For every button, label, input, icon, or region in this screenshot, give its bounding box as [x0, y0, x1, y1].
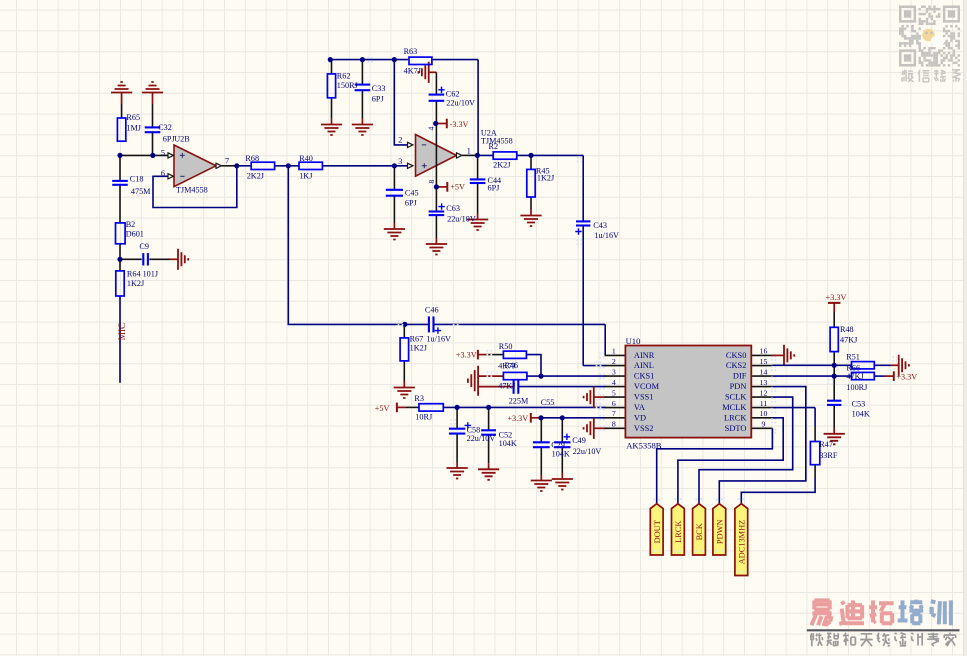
svg-text:TJM4558: TJM4558 — [176, 185, 208, 194]
svg-text:DIF: DIF — [733, 372, 747, 381]
svg-text:LRCK: LRCK — [724, 413, 746, 422]
svg-text:6PJ: 6PJ — [405, 198, 418, 207]
svg-text:-3.3V: -3.3V — [450, 120, 469, 129]
svg-text:104K: 104K — [552, 450, 570, 459]
svg-text:47KJ: 47KJ — [846, 372, 864, 381]
svg-text:22u/10V: 22u/10V — [446, 99, 475, 108]
svg-text:CKS0: CKS0 — [726, 351, 746, 360]
svg-text:R3: R3 — [414, 394, 424, 403]
svg-text:+3.3V: +3.3V — [896, 372, 917, 381]
svg-text:+3.3V: +3.3V — [826, 293, 847, 302]
svg-text:R64 101J: R64 101J — [127, 269, 159, 278]
svg-text:SCLK: SCLK — [725, 393, 746, 402]
svg-text:22u/10V: 22u/10V — [573, 447, 602, 456]
svg-text:4: 4 — [612, 378, 616, 387]
svg-text:C63: C63 — [446, 204, 460, 213]
svg-text:1u/16V: 1u/16V — [594, 231, 619, 240]
svg-text:C52: C52 — [499, 430, 513, 439]
svg-text:R63: R63 — [404, 47, 418, 56]
svg-text:3: 3 — [612, 367, 616, 376]
svg-text:1K2J: 1K2J — [127, 279, 145, 288]
svg-text:C9: C9 — [139, 242, 149, 251]
svg-text:ADC13MHZ: ADC13MHZ — [738, 520, 747, 565]
svg-text:33RF: 33RF — [819, 451, 838, 460]
svg-text:4K7J: 4K7J — [404, 67, 422, 76]
svg-text:LRCK: LRCK — [674, 521, 683, 543]
svg-text:CKS2: CKS2 — [726, 361, 746, 370]
svg-text:10RJ: 10RJ — [415, 413, 433, 422]
svg-text:22u/10V: 22u/10V — [447, 215, 476, 224]
svg-text:R62: R62 — [337, 72, 351, 81]
svg-text:C18: C18 — [130, 175, 144, 184]
svg-text:C29: C29 — [551, 441, 565, 450]
svg-text:1MJ: 1MJ — [126, 123, 141, 132]
svg-text:AK5358B: AK5358B — [626, 440, 662, 450]
svg-text:2K2J: 2K2J — [247, 171, 265, 180]
svg-text:14: 14 — [760, 367, 768, 376]
svg-text:16: 16 — [760, 347, 768, 356]
svg-text:R48: R48 — [840, 325, 854, 334]
svg-text:4: 4 — [427, 127, 436, 131]
svg-text:R51: R51 — [846, 352, 860, 361]
svg-text:C53: C53 — [852, 400, 866, 409]
svg-text:8: 8 — [612, 420, 616, 429]
svg-text:C33: C33 — [372, 84, 386, 93]
svg-text:+5V: +5V — [375, 404, 390, 413]
svg-text:7: 7 — [612, 409, 616, 418]
svg-text:C62: C62 — [446, 90, 460, 99]
svg-text:VSS1: VSS1 — [634, 393, 654, 402]
svg-text:R50: R50 — [499, 342, 513, 351]
svg-text:AINL: AINL — [634, 361, 654, 370]
svg-text:104K: 104K — [852, 410, 870, 419]
svg-text:1KJ: 1KJ — [299, 171, 313, 180]
svg-text:PDN: PDN — [730, 382, 747, 391]
svg-text:PDWN: PDWN — [716, 519, 725, 544]
svg-text:5: 5 — [612, 388, 616, 397]
svg-text:100RJ: 100RJ — [846, 383, 868, 392]
svg-text:22u/10V: 22u/10V — [467, 434, 496, 443]
svg-text:R47: R47 — [819, 440, 833, 449]
svg-text:225M: 225M — [509, 397, 529, 406]
svg-text:9: 9 — [762, 420, 766, 429]
svg-text:R40: R40 — [299, 154, 313, 163]
svg-text:3: 3 — [398, 157, 402, 166]
svg-text:BCK: BCK — [695, 523, 704, 540]
svg-text:C46: C46 — [425, 305, 439, 314]
svg-text:12: 12 — [760, 388, 768, 397]
svg-text:+3.3V: +3.3V — [456, 351, 477, 360]
svg-text:11: 11 — [760, 399, 768, 408]
svg-text:R2: R2 — [489, 142, 499, 151]
svg-text:1: 1 — [467, 146, 471, 155]
svg-text:6: 6 — [612, 399, 616, 408]
svg-text:8: 8 — [427, 180, 436, 184]
svg-text:R65: R65 — [126, 113, 140, 122]
svg-text:C49: C49 — [572, 436, 586, 445]
svg-text:47KJ: 47KJ — [840, 336, 858, 345]
svg-text:R67: R67 — [410, 335, 424, 344]
svg-text:6PJ: 6PJ — [372, 94, 385, 103]
svg-text:2K2J: 2K2J — [493, 161, 511, 170]
svg-text:1K2J: 1K2J — [537, 174, 555, 183]
svg-text:VD: VD — [634, 413, 646, 422]
svg-text:C32: C32 — [158, 123, 172, 132]
svg-text:1K2J: 1K2J — [410, 343, 428, 352]
svg-text:VSS2: VSS2 — [634, 424, 654, 433]
svg-text:C55: C55 — [541, 398, 555, 407]
svg-text:AINR: AINR — [634, 351, 655, 360]
svg-text:C43: C43 — [593, 221, 607, 230]
svg-text:104K: 104K — [499, 439, 517, 448]
svg-text:U2B: U2B — [174, 134, 190, 143]
svg-text:CKS1: CKS1 — [634, 372, 654, 381]
svg-text:C45: C45 — [405, 189, 419, 198]
svg-text:6: 6 — [161, 169, 165, 178]
svg-text:13: 13 — [760, 378, 768, 387]
svg-text:6PJ: 6PJ — [488, 184, 501, 193]
svg-text:VCOM: VCOM — [634, 382, 660, 391]
svg-text:1u/16V: 1u/16V — [426, 335, 451, 344]
svg-text:+3.3V: +3.3V — [507, 414, 528, 423]
svg-text:R46: R46 — [505, 361, 519, 370]
svg-text:B2: B2 — [126, 220, 136, 229]
svg-text:+5V: +5V — [450, 183, 465, 192]
svg-text:150RJ: 150RJ — [337, 81, 359, 90]
svg-text:VA: VA — [634, 403, 645, 412]
svg-text:2: 2 — [612, 357, 616, 366]
svg-text:5: 5 — [161, 148, 165, 157]
svg-text:D601: D601 — [126, 230, 144, 239]
svg-text:MIC: MIC — [117, 323, 127, 340]
svg-text:1: 1 — [612, 347, 616, 356]
svg-text:U10: U10 — [626, 336, 641, 346]
svg-text:DOUT: DOUT — [653, 520, 662, 543]
svg-text:7: 7 — [225, 157, 229, 166]
svg-text:R68: R68 — [245, 154, 259, 163]
svg-text:47KJ: 47KJ — [498, 381, 516, 390]
svg-text:SDTO: SDTO — [725, 424, 747, 433]
svg-text:2: 2 — [398, 136, 402, 145]
svg-text:10: 10 — [760, 409, 768, 418]
svg-text:MCLK: MCLK — [722, 403, 746, 412]
svg-text:475M: 475M — [131, 187, 151, 196]
svg-text:15: 15 — [760, 357, 768, 366]
